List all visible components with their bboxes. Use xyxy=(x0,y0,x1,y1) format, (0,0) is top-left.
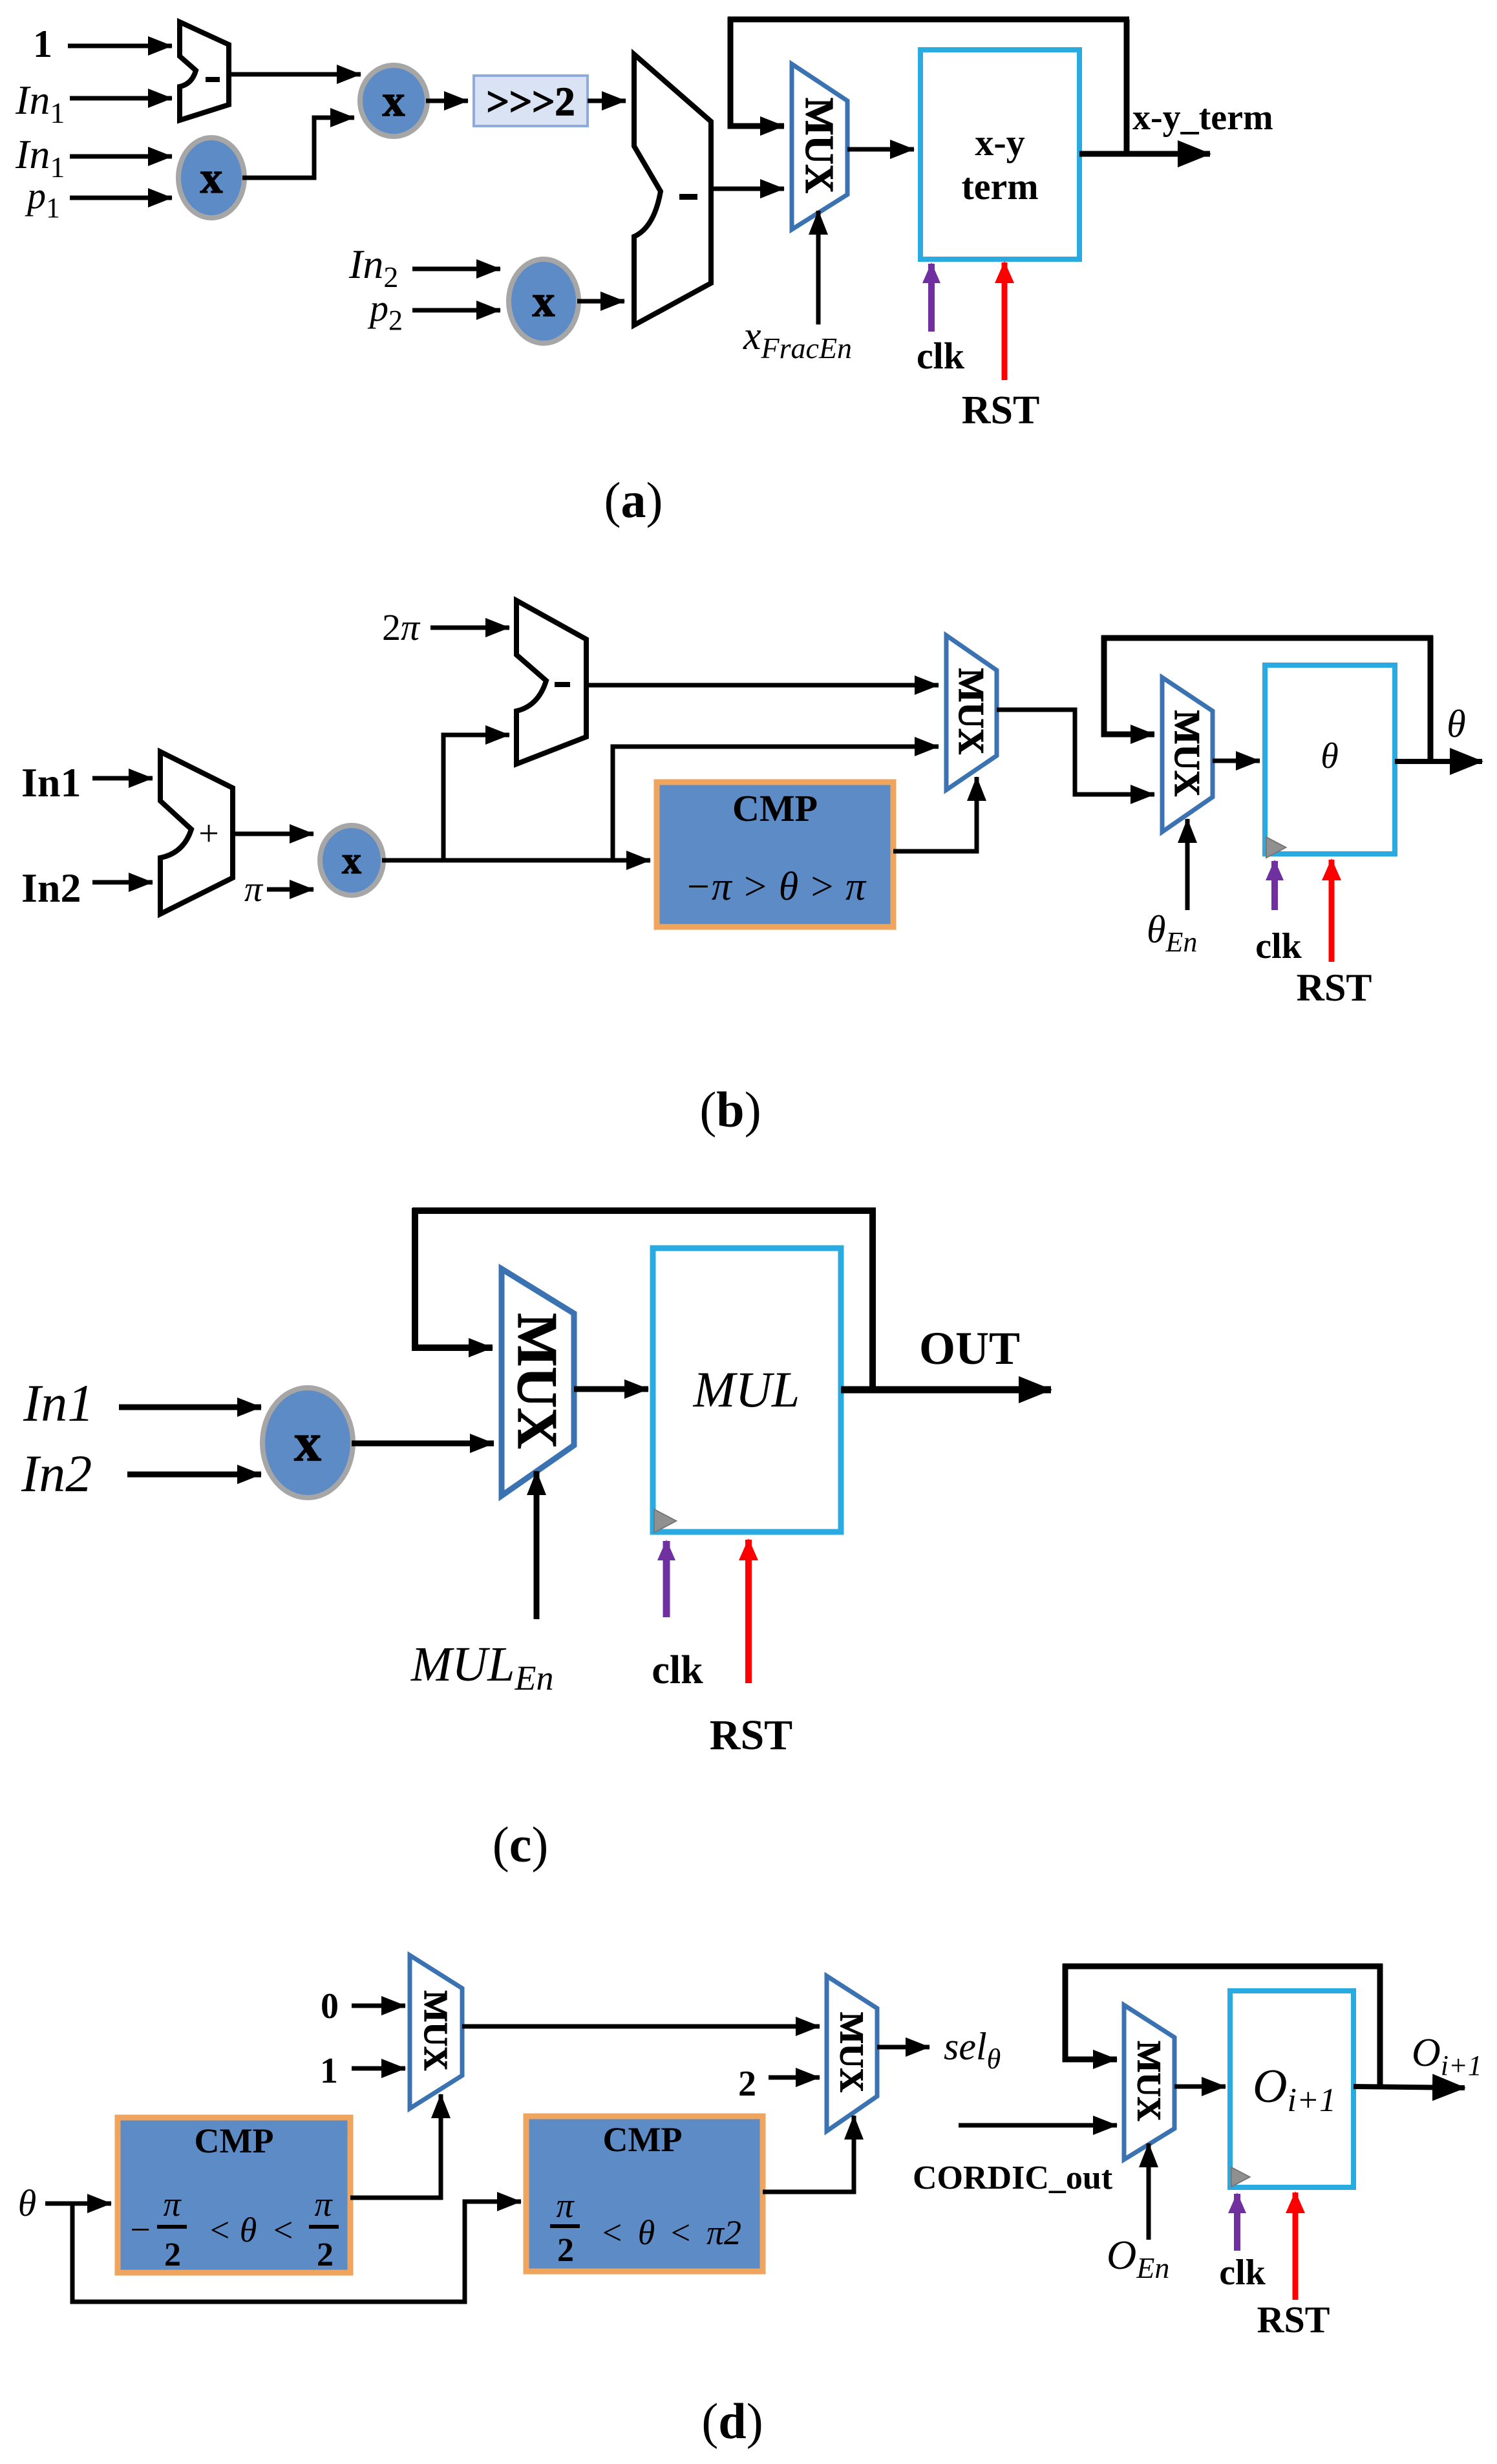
wire register theta output xyxy=(1395,759,1482,764)
wire M3 to SUB2 xyxy=(577,299,624,304)
svg-text:x: x xyxy=(200,153,223,203)
wire feedback O to MUX7 input1 xyxy=(1377,1964,1383,2087)
clock wedge REG4 xyxy=(1231,2167,1250,2187)
subtractor SUB1 xyxy=(180,22,229,120)
wire SUB3 output to MUX2 input1 xyxy=(586,683,939,688)
wire feedback OUT to MUX4 input1 xyxy=(869,1208,876,1389)
multiplier M2 xyxy=(178,138,244,218)
wire 1 to MUX5 xyxy=(352,2066,405,2071)
svg-text:<: < xyxy=(273,2211,293,2249)
RST arrow (a) xyxy=(1002,262,1008,380)
svg-text:2: 2 xyxy=(557,2232,574,2269)
wire MUX3 output to register theta xyxy=(1213,759,1260,763)
svg-text:RST: RST xyxy=(710,1712,792,1759)
mux MUX7 xyxy=(1124,2005,1174,2160)
svg-text:MUX: MUX xyxy=(417,1990,454,2070)
svg-text:MUX: MUX xyxy=(505,1313,568,1449)
svg-text:θ: θ xyxy=(638,2213,655,2252)
svg-text:<: < xyxy=(602,2213,622,2252)
svg-text:CMP: CMP xyxy=(603,2120,683,2159)
wire In2 to adder xyxy=(92,880,153,885)
svg-text:1: 1 xyxy=(33,23,52,65)
svg-text:MUL: MUL xyxy=(693,1361,800,1418)
clk arrow (a) xyxy=(928,264,935,332)
wire 0 to MUX5 xyxy=(352,2004,405,2008)
svg-text:MUX: MUX xyxy=(797,98,841,193)
svg-text:In1: In1 xyxy=(21,759,81,805)
svg-text:CMP: CMP xyxy=(732,787,818,829)
svg-text:clk: clk xyxy=(917,335,965,377)
clock wedge REG2 xyxy=(1266,837,1286,858)
svg-text:+: + xyxy=(198,814,219,854)
svg-text:(d): (d) xyxy=(701,2393,763,2449)
register MUL REG3 xyxy=(653,1248,841,1532)
svg-text:>>>2: >>>2 xyxy=(487,80,575,124)
subtractor SUB2 xyxy=(634,54,711,325)
wire In1 to multiplier xyxy=(70,154,172,159)
wire register output x-y_term xyxy=(1079,151,1210,157)
clock wedge REG3 xyxy=(654,1509,676,1533)
wire 2pi to SUB3 xyxy=(430,626,509,630)
svg-text:x: x xyxy=(342,839,361,882)
svg-text:2: 2 xyxy=(738,2064,756,2104)
wire p2 to multiplier M3 xyxy=(412,308,500,313)
wire p1 to multiplier xyxy=(70,196,172,200)
wire In2 to multiplier M3 xyxy=(412,267,500,271)
wire CMP1 output to MUX2 select xyxy=(893,777,977,851)
svg-text:x-y_term: x-y_term xyxy=(1132,98,1273,138)
svg-text:θ: θ xyxy=(18,2182,37,2224)
wire MUX1 output to register xyxy=(847,147,914,152)
wire MUL_En select to MUX4 xyxy=(534,1471,540,1619)
wire register MUL output OUT xyxy=(841,1386,1051,1394)
comparator CMP2 xyxy=(118,2118,350,2273)
wire M2 output to M1 xyxy=(242,118,354,178)
svg-text:RST: RST xyxy=(1257,2299,1330,2341)
wire feedback theta to MUX3 input1 xyxy=(1428,635,1434,761)
RST arrow (b) xyxy=(1329,860,1335,962)
wire 2 to MUX6 xyxy=(769,2076,820,2080)
wire riser to MUX2 input2 xyxy=(613,747,939,860)
svg-text:term: term xyxy=(961,165,1038,207)
svg-text:clk: clk xyxy=(1255,926,1302,966)
svg-text:RST: RST xyxy=(962,388,1040,432)
wire M4 output to CMP xyxy=(382,858,650,863)
wire theta_En select to MUX3 xyxy=(1185,819,1190,910)
multiplier M4 xyxy=(320,825,383,895)
wire theta loop to CMP3 xyxy=(72,2202,521,2302)
clk arrow (d) xyxy=(1234,2194,1240,2251)
wire O_En select to MUX7 xyxy=(1147,2143,1151,2240)
svg-text:(a): (a) xyxy=(604,472,663,528)
svg-text:<: < xyxy=(210,2211,229,2249)
wire shifter to subtractor SUB2 xyxy=(588,99,626,103)
svg-text:MUX: MUX xyxy=(833,2012,869,2092)
svg-text:clk: clk xyxy=(652,1648,703,1692)
svg-text:MUX: MUX xyxy=(1130,2041,1167,2121)
multiplier M1 xyxy=(360,65,427,136)
svg-text:(c): (c) xyxy=(493,1816,549,1873)
mux MUX1 xyxy=(792,64,847,229)
svg-text:θ: θ xyxy=(1321,736,1339,776)
svg-text:RST: RST xyxy=(1297,966,1372,1009)
mux MUX6 xyxy=(827,1976,877,2131)
svg-text:2: 2 xyxy=(317,2236,334,2273)
svg-text:π: π xyxy=(163,2185,182,2224)
wire CMP3 output to MUX6 select xyxy=(763,2116,854,2192)
svg-text:π2: π2 xyxy=(706,2213,741,2252)
mux MUX4 xyxy=(502,1269,574,1496)
svg-text:π: π xyxy=(314,2185,333,2224)
svg-text:CORDIC_out: CORDIC_out xyxy=(913,2160,1113,2196)
svg-text:θ: θ xyxy=(240,2211,257,2249)
wire CORDIC_out to MUX7 input2 xyxy=(959,2123,1117,2128)
wire M5 output to MUX4 xyxy=(352,1441,494,1447)
svg-text:−π > θ > π: −π > θ > π xyxy=(685,865,867,909)
wire MUX7 output to register O xyxy=(1174,2085,1226,2089)
wire In1 to multiplier M5 xyxy=(119,1405,261,1410)
svg-text:1: 1 xyxy=(320,2051,338,2091)
wire MUX6 output sel_theta xyxy=(877,2045,929,2050)
mux MUX3 xyxy=(1162,677,1213,832)
multiplier M3 xyxy=(509,259,579,343)
svg-text:2π: 2π xyxy=(382,606,421,648)
svg-text:π: π xyxy=(556,2186,575,2225)
wire input 1 to subtractor xyxy=(68,44,172,48)
wire MUX4 output to register MUL xyxy=(574,1386,648,1392)
comparator CMP1 xyxy=(657,782,893,927)
svg-text:In2: In2 xyxy=(21,865,81,911)
wire feedback from output to MUX1 xyxy=(1124,19,1130,154)
register theta REG2 xyxy=(1265,665,1395,854)
subtractor SUB3 xyxy=(516,600,586,764)
svg-text:x: x xyxy=(533,277,555,326)
multiplier M5 xyxy=(262,1388,353,1498)
wire In2 to multiplier M5 xyxy=(127,1472,261,1478)
wire MUX5 output to MUX6 input1 xyxy=(462,2024,820,2029)
svg-text:π: π xyxy=(244,869,264,909)
svg-text:CMP: CMP xyxy=(195,2121,274,2160)
mux MUX5 xyxy=(410,1955,462,2108)
wire M1 to shifter xyxy=(426,99,468,103)
clk arrow (c) xyxy=(663,1541,670,1617)
svg-text:In2: In2 xyxy=(21,1444,92,1503)
register x-y term REG1 xyxy=(920,50,1079,259)
svg-text:x: x xyxy=(294,1413,321,1473)
svg-text:2: 2 xyxy=(164,2236,181,2273)
svg-text:MUX: MUX xyxy=(1167,710,1207,797)
svg-text:MUX: MUX xyxy=(951,668,991,755)
wire register O output xyxy=(1354,2087,1465,2088)
wire adder output to multiplier M4 xyxy=(233,832,313,836)
svg-text:In1: In1 xyxy=(23,1374,94,1432)
wire MUX2 output to MUX3 input2 xyxy=(997,710,1154,794)
wire In1 to adder xyxy=(92,776,153,781)
svg-text:<: < xyxy=(671,2213,690,2252)
clk arrow (b) xyxy=(1271,861,1278,910)
wire pi to M4 xyxy=(267,887,313,892)
svg-text:(b): (b) xyxy=(699,1081,761,1138)
wire In1 to subtractor xyxy=(70,96,172,101)
RST arrow (c) xyxy=(745,1540,752,1683)
shifter >>>2 xyxy=(474,76,588,126)
wire theta to CMP2 xyxy=(45,2202,111,2206)
adder ADD1 xyxy=(160,752,233,914)
svg-text:0: 0 xyxy=(321,1986,339,2026)
wire CMP2 output to MUX5 select xyxy=(350,2094,441,2198)
mux MUX2 xyxy=(946,635,997,790)
wire riser to SUB3 input2 xyxy=(443,735,509,860)
wire SUB2 output to MUX1 xyxy=(711,187,784,191)
wire x_FracEn select into MUX1 xyxy=(816,211,821,324)
RST arrow (d) xyxy=(1293,2193,1299,2300)
svg-text:clk: clk xyxy=(1219,2253,1266,2293)
svg-text:x: x xyxy=(383,76,405,126)
svg-text:θ: θ xyxy=(1447,703,1465,745)
svg-text:OUT: OUT xyxy=(919,1322,1020,1374)
svg-text:x-y: x-y xyxy=(975,122,1025,164)
svg-text:−: − xyxy=(130,2210,151,2250)
comparator CMP3 xyxy=(526,2116,763,2271)
wire SUB1 output to multiplier M1 xyxy=(229,72,361,77)
register O_i+1 REG4 xyxy=(1230,1991,1354,2187)
